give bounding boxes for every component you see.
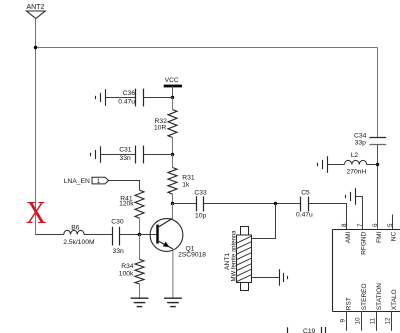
svg-text:12: 12: [385, 317, 392, 325]
svg-text:7: 7: [357, 223, 364, 227]
ground at ferrite (pointing right): [280, 269, 288, 286]
svg-text:120k: 120k: [119, 201, 134, 208]
power VCC: [164, 77, 182, 98]
wire top horizontal rail: [36, 47, 378, 49]
wire L2 to junction: [367, 164, 378, 166]
resistor R41 120k: [119, 190, 144, 234]
svg-text:100k: 100k: [119, 271, 134, 278]
wire C34 to FMI pin 6: [377, 145, 379, 230]
antenna ANT2: [27, 4, 46, 19]
wire C36 to VCC node: [144, 97, 173, 99]
svg-text:C31: C31: [119, 147, 132, 154]
wire ground to C31: [101, 154, 136, 156]
pin 9 line: [346, 312, 348, 331]
wire C31 to R32 node: [144, 154, 173, 156]
capacitor C30 33n: [111, 218, 124, 255]
ferrite bead B6 2.5k/100M: [63, 224, 95, 246]
svg-text:33n: 33n: [120, 155, 131, 162]
svg-text:8: 8: [341, 223, 348, 227]
wire C5 to pin 8: [309, 204, 347, 230]
port LNA_EN: [64, 177, 109, 185]
transistor Q1 2SC9018: [150, 218, 206, 258]
capacitor C5 0.47u: [296, 189, 313, 218]
svg-text:33p: 33p: [355, 140, 366, 147]
node R32/C31/R31 junction: [171, 153, 174, 156]
svg-text:10p: 10p: [195, 213, 206, 220]
capacitor C36 0.47u: [118, 89, 143, 107]
resistor R31 1k: [168, 155, 195, 204]
node base junction: [138, 233, 142, 237]
svg-text:9: 9: [340, 319, 347, 323]
resistor R34 100k: [119, 235, 144, 298]
wire base node to Q1 base: [140, 234, 158, 236]
inductor L2 270nH: [344, 152, 366, 176]
svg-text:AMI: AMI: [345, 232, 352, 244]
svg-text:ANT2: ANT2: [27, 4, 45, 11]
svg-text:C19: C19: [303, 328, 316, 333]
pin 12 line: [391, 312, 393, 331]
svg-text:2SC9018: 2SC9018: [178, 251, 206, 258]
svg-text:270nH: 270nH: [347, 169, 367, 176]
wire ferrite bottom to ground: [252, 277, 280, 279]
wire ground to C36: [106, 97, 136, 99]
svg-text:10: 10: [355, 317, 362, 325]
svg-text:RFGND: RFGND: [360, 231, 367, 254]
pin 11 line: [376, 312, 378, 331]
svg-text:C5: C5: [301, 189, 310, 196]
node VCC junction: [171, 96, 174, 99]
pin 10 line: [361, 312, 363, 331]
svg-text:FMI: FMI: [376, 232, 383, 243]
svg-text:VCC: VCC: [165, 77, 179, 84]
wire R31 node to C33: [173, 203, 197, 205]
wire ground to pin 7: [356, 197, 363, 230]
svg-text:NC: NC: [391, 231, 398, 241]
svg-text:33n: 33n: [113, 248, 124, 255]
svg-text:L2: L2: [351, 152, 359, 159]
svg-text:0.47u: 0.47u: [118, 98, 135, 105]
pin 5 NC stub: [392, 215, 394, 230]
svg-text:R34: R34: [121, 263, 134, 270]
svg-text:STATION: STATION: [376, 283, 383, 311]
svg-text:C36: C36: [123, 90, 136, 97]
wire B6 to C30: [84, 234, 113, 236]
svg-text:2.5k/100M: 2.5k/100M: [63, 239, 95, 246]
capacitor C33 10p: [194, 189, 207, 219]
wire ground to L2: [328, 164, 345, 166]
capacitor C19 (partially cut at bottom): [288, 327, 326, 333]
svg-text:C34: C34: [354, 133, 367, 140]
svg-text:RST: RST: [346, 297, 353, 310]
svg-text:6: 6: [372, 223, 379, 227]
wire right rail down to C34: [377, 48, 379, 138]
svg-text:11: 11: [370, 317, 377, 324]
wire Q1 collector to R31 node: [172, 204, 174, 219]
resistor R32 10R: [154, 98, 177, 155]
svg-text:0.47u: 0.47u: [296, 211, 313, 218]
wire Q1 emitter to ground: [172, 249, 174, 298]
wire antenna lead down left rail: [35, 19, 37, 235]
capacitor C31 33n: [119, 146, 143, 164]
svg-text:STEREO: STEREO: [361, 283, 368, 310]
svg-text:LNA_EN: LNA_EN: [64, 178, 90, 185]
ground under Q1 emitter (pointing down): [164, 298, 182, 306]
svg-text:10R: 10R: [154, 125, 166, 132]
svg-text:5: 5: [387, 223, 394, 227]
svg-text:1: 1: [97, 178, 101, 185]
ground at C36 (pointing left): [96, 89, 106, 106]
wire left rail to B6: [36, 234, 64, 236]
wire C33 to C5: [204, 203, 301, 205]
ground under R34 (pointing down): [131, 298, 149, 306]
MW ferrite antenna ANT1: [224, 227, 252, 291]
wire ferrite tap from C33/C5 node: [252, 204, 276, 239]
wire LNA_EN port to R41: [109, 181, 140, 191]
svg-text:C33: C33: [194, 189, 207, 196]
svg-text:ANT1: ANT1: [224, 253, 231, 270]
capacitor C34 33p: [354, 133, 386, 147]
node ANT2 junction: [34, 46, 37, 49]
svg-text:X: X: [26, 195, 47, 230]
ground at RFGND (pointing left): [346, 188, 356, 205]
svg-text:XTALO: XTALO: [391, 289, 398, 310]
ground at L2 (pointing left): [318, 156, 328, 173]
ground at C31 (pointing left): [91, 146, 101, 163]
node L2/C34/FMI junction: [376, 163, 379, 166]
wire C30 to base node: [120, 234, 140, 236]
IC U1 outline: [333, 230, 400, 312]
node R31/C33 junction: [171, 202, 174, 205]
svg-text:1k: 1k: [182, 181, 190, 188]
svg-text:C30: C30: [111, 218, 124, 225]
node ferrite antenna tap junction: [274, 202, 277, 205]
